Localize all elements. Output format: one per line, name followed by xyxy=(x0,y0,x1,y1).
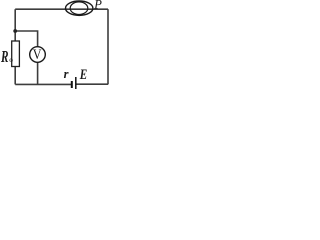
svg-text:E: E xyxy=(79,67,87,83)
svg-text:V: V xyxy=(33,47,42,63)
svg-text:R: R xyxy=(0,47,8,66)
svg-text:P: P xyxy=(93,0,102,12)
svg-text:r: r xyxy=(64,67,69,81)
svg-text:o: o xyxy=(9,55,13,64)
